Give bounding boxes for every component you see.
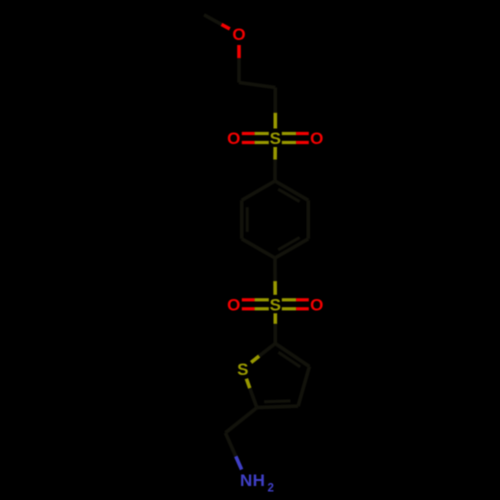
double bond S1=O1R (282, 134, 309, 143)
bond S2-TC2 (to thiophene) (273, 313, 277, 343)
bond S1-Cring-top (273, 147, 277, 181)
bond CH2-N (225, 433, 241, 470)
double bond S1=O1L (242, 134, 269, 143)
benzene edge RLR-RB (275, 239, 308, 258)
svg-text:O: O (227, 129, 240, 148)
benzene edge RB-RLL (242, 239, 275, 258)
thiophene bond TC3-TC2 (275, 344, 309, 367)
double bond S2=O2R (282, 300, 309, 309)
svg-text:O: O (227, 296, 240, 315)
benzene edge RUR-RLR (306, 200, 310, 239)
bond C2-S1 (273, 88, 277, 129)
bond CH3-O (methyl to ether oxygen) (204, 15, 230, 29)
svg-text:2: 2 (267, 483, 273, 495)
svg-text:O: O (232, 25, 245, 44)
svg-text:S: S (237, 360, 248, 379)
thiophene bond TC2-TS (251, 344, 275, 363)
bond Cring-bottom-S2 (273, 258, 277, 295)
svg-text:N: N (240, 471, 252, 490)
benzene edge RT-RUR (275, 181, 308, 200)
thiophene bond TS-TC5 (246, 379, 257, 408)
benzene inner double RT=RUR (278, 189, 299, 201)
thiophene inner double TC4=TC5 (264, 399, 290, 403)
svg-text:O: O (310, 129, 323, 148)
benzene edge RUL-RT (242, 181, 275, 200)
benzene edge RLL-RUL (240, 200, 244, 239)
thiophene bond TC4-TC3 (298, 367, 309, 407)
bond C1-C2 (239, 83, 275, 88)
benzene inner double RLL=RUL (246, 207, 249, 232)
svg-text:H: H (253, 471, 265, 490)
double bond S2=O2L (242, 300, 269, 309)
svg-text:S: S (270, 296, 281, 315)
svg-text:O: O (310, 296, 323, 315)
bond TC5-CH2 (225, 408, 257, 433)
amine group NH2 label (240, 471, 274, 494)
svg-text:S: S (270, 129, 281, 148)
benzene inner double RLR=RB (278, 238, 299, 250)
thiophene bond TC5-TC4 (257, 406, 298, 408)
bond O-C1 (237, 45, 241, 83)
thiophene inner double TC2=TC3 (278, 352, 300, 367)
